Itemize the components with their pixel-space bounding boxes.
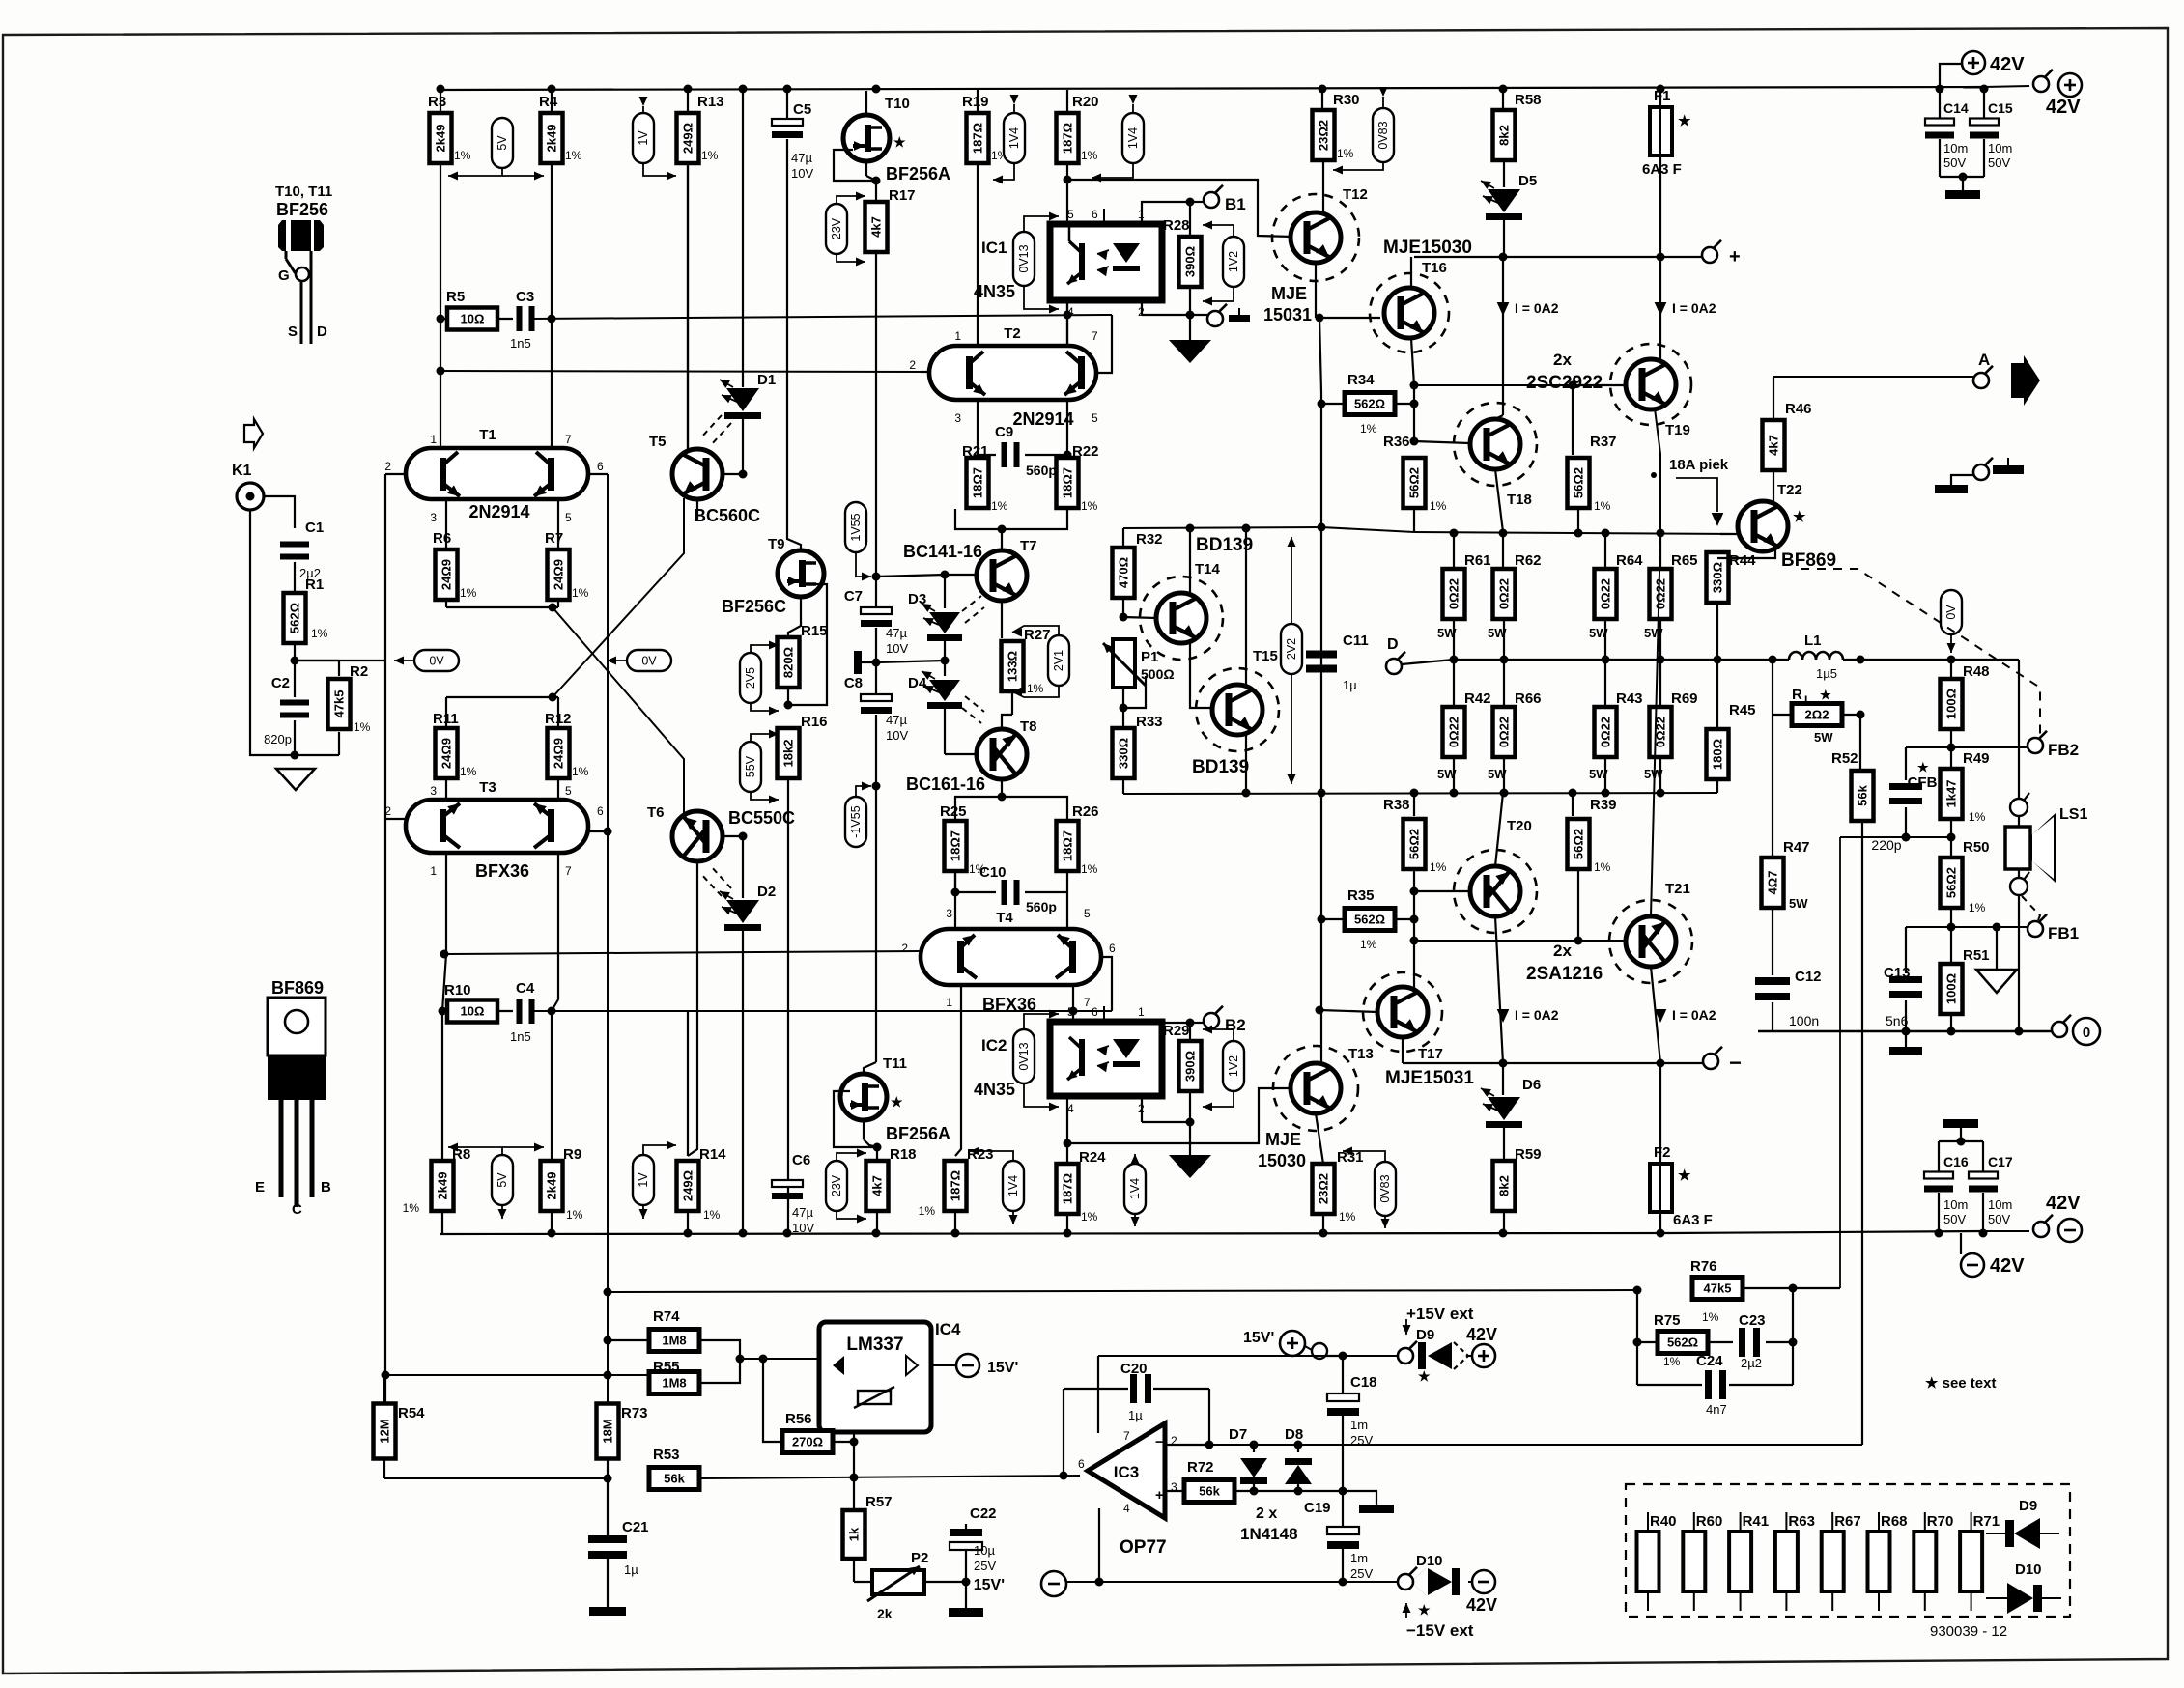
wire R21 top to T2 pin3 (977, 400, 979, 458)
svg-text:1%: 1% (1337, 147, 1354, 160)
svg-text:D2: D2 (757, 884, 776, 900)
svg-text:15030: 15030 (1258, 1151, 1306, 1170)
label 23V measure (826, 204, 847, 254)
wire pin3 via R72 (1165, 1490, 1185, 1492)
transistor T15 BD139 (1196, 668, 1279, 751)
svg-text:R18: R18 (890, 1146, 917, 1163)
svg-text:I = 0A2: I = 0A2 (1672, 1007, 1716, 1023)
svg-text:187Ω: 187Ω (1061, 1173, 1075, 1204)
label 0V83 measure R31 (1375, 1162, 1396, 1216)
svg-text:25V: 25V (1350, 1433, 1373, 1448)
svg-text:D5: D5 (1518, 173, 1537, 189)
svg-text:+: + (1155, 1487, 1164, 1504)
svg-text:C21: C21 (622, 1519, 649, 1535)
speaker LS1 (2005, 827, 2030, 869)
resistor R48 (1950, 660, 1952, 678)
svg-text:56k: 56k (1199, 1484, 1220, 1499)
svg-text:1: 1 (954, 329, 961, 343)
resistor R34 (1345, 393, 1395, 415)
svg-text:D8: D8 (1285, 1426, 1303, 1443)
wire T7 collector to R21/R22 (1001, 529, 1003, 550)
svg-text:R41: R41 (1743, 1513, 1770, 1530)
wire op pin7 up (1098, 1356, 1343, 1433)
svg-text:1%: 1% (565, 149, 582, 162)
wire T4 base long wire (446, 951, 921, 954)
transistor T18 2SC2922 (1454, 403, 1537, 486)
svg-text:0V: 0V (641, 655, 657, 668)
resistor R62 (1502, 533, 1504, 569)
transistor T1 2N2914 (406, 448, 588, 499)
svg-text:BF869: BF869 (1781, 550, 1836, 571)
svg-text:−: − (1729, 1051, 1742, 1075)
svg-text:R36: R36 (1383, 434, 1410, 450)
wire C16 C17 top join (1939, 1140, 1983, 1142)
svg-text:C20: C20 (1120, 1361, 1148, 1377)
svg-text:220p: 220p (1871, 837, 1901, 853)
resistor R73 (597, 1404, 619, 1459)
wire D3-D4 mid tap (876, 661, 945, 662)
wire T17 base from T13 (1319, 1010, 1377, 1012)
svg-text:D9: D9 (1416, 1327, 1434, 1343)
ground C14 C15 (1945, 190, 1980, 199)
svg-text:56k: 56k (664, 1472, 685, 1486)
resistor R20 (1066, 90, 1068, 113)
svg-text:R69: R69 (1671, 690, 1698, 707)
wire T8 emitter to R25/R26 (1001, 779, 1003, 797)
svg-text:2x: 2x (1553, 942, 1572, 960)
svg-text:1%: 1% (460, 586, 477, 600)
svg-text:C18: C18 (1350, 1374, 1377, 1391)
svg-text:R2: R2 (350, 663, 368, 680)
svg-text:270Ω: 270Ω (792, 1435, 823, 1449)
wire T18 base (1414, 441, 1469, 443)
svg-text:R40: R40 (1650, 1513, 1677, 1530)
svg-text:390Ω: 390Ω (1183, 246, 1198, 277)
svg-text:1%: 1% (566, 1208, 583, 1222)
resistor R24 (1066, 1143, 1068, 1166)
svg-text:P2: P2 (911, 1550, 928, 1566)
wire T3 pin1 down (445, 853, 447, 954)
svg-text:562Ω: 562Ω (1354, 397, 1385, 411)
svg-text:T10: T10 (885, 96, 910, 112)
svg-text:7: 7 (1092, 329, 1098, 343)
svg-text:1%: 1% (403, 1201, 420, 1215)
svg-text:1%: 1% (572, 765, 589, 778)
svg-text:1m: 1m (1350, 1551, 1368, 1565)
svg-text:R15: R15 (801, 623, 828, 639)
svg-text:D10: D10 (1416, 1553, 1443, 1569)
terminal B1 (1190, 201, 1204, 203)
wire T12 column down to R35 (1320, 404, 1322, 919)
capacitor C7 (861, 607, 892, 614)
svg-text:D9: D9 (2019, 1498, 2037, 1514)
svg-text:OP77: OP77 (1120, 1537, 1167, 1558)
capacitor C14 (1939, 87, 1941, 118)
svg-text:C1: C1 (305, 520, 324, 536)
svg-text:930039 - 12: 930039 - 12 (1930, 1623, 2007, 1640)
svg-text:IC3: IC3 (1114, 1463, 1139, 1481)
svg-text:10V: 10V (792, 1221, 814, 1235)
output arrow A (2011, 355, 2040, 406)
svg-text:10µ: 10µ (974, 1543, 995, 1558)
transistor T17 MJE15031 (1413, 941, 1415, 988)
svg-text:BC550C: BC550C (728, 808, 795, 828)
wire K1 to C1 (264, 496, 295, 528)
connector K1 (237, 483, 264, 510)
svg-text:5: 5 (565, 784, 572, 798)
svg-text:T15: T15 (1253, 648, 1278, 664)
resistor R61 (1453, 533, 1455, 569)
svg-text:0V: 0V (429, 655, 444, 668)
svg-text:1µ5: 1µ5 (1816, 666, 1837, 681)
svg-text:562Ω: 562Ω (1667, 1336, 1698, 1350)
svg-text:1%: 1% (354, 720, 371, 734)
svg-text:180Ω: 180Ω (1711, 739, 1725, 770)
svg-text:100n: 100n (1789, 1013, 1819, 1028)
label 23V measure bottom (826, 1161, 847, 1211)
wire T7 base (876, 575, 945, 577)
resistor R68 (1878, 1512, 1880, 1532)
wire C4 to IC2 pin5 node (532, 1010, 1112, 1012)
diode D1 LED (726, 388, 759, 411)
transistor T8 BC161-16 (977, 729, 1027, 779)
transistor T5 BC560C (687, 161, 689, 450)
svg-text:8k2: 8k2 (1497, 125, 1512, 146)
svg-text:1µ: 1µ (1343, 678, 1357, 692)
svg-text:D7: D7 (1229, 1426, 1247, 1443)
svg-text:10V: 10V (886, 641, 908, 656)
resistor R41 (1740, 1512, 1742, 1532)
terminal A (1973, 373, 1989, 388)
wire C3 to IC1 pin4 node (532, 315, 1112, 319)
transistor T7 BC141-16 (977, 550, 1027, 601)
svg-text:24Ω9: 24Ω9 (440, 559, 454, 590)
svg-text:2k49: 2k49 (434, 125, 448, 153)
svg-text:T12: T12 (1343, 186, 1368, 203)
wire diagonal cross to T6 (553, 607, 684, 815)
svg-text:7: 7 (565, 864, 572, 878)
wire 42V stub (1940, 64, 1961, 87)
svg-text:42V: 42V (1990, 54, 2025, 75)
svg-text:R17: R17 (889, 187, 916, 204)
svg-text:23V: 23V (830, 217, 843, 239)
svg-text:MJE: MJE (1265, 1130, 1301, 1149)
label 0V83 measure (1373, 108, 1394, 162)
svg-text:T16: T16 (1422, 260, 1447, 276)
svg-text:I = 0A2: I = 0A2 (1515, 300, 1559, 316)
wire T2 pin6 (1096, 315, 1112, 373)
wire T1 base column (385, 473, 406, 475)
svg-text:R39: R39 (1590, 797, 1617, 813)
wire collector + rail (1414, 256, 1702, 258)
resistor R43 (1604, 660, 1606, 707)
svg-text:1%: 1% (1663, 1355, 1681, 1368)
resistor R37 (1572, 385, 1574, 455)
svg-text:1%: 1% (1702, 1310, 1719, 1324)
transistor T12 MJE15031 (1322, 160, 1324, 213)
capacitor C23 (1708, 1341, 1733, 1343)
capacitor C8 (861, 694, 892, 701)
svg-text:1%: 1% (1430, 860, 1447, 874)
svg-text:T8: T8 (1020, 718, 1037, 735)
svg-text:T5: T5 (649, 434, 667, 450)
wire 220p node (1840, 836, 1951, 838)
svg-text:C5: C5 (793, 101, 811, 118)
svg-text:R54: R54 (398, 1405, 425, 1421)
svg-text:18Ω7: 18Ω7 (971, 467, 985, 498)
current arrow I=0A2 bottom right (1655, 1009, 1667, 1023)
capacitor C16 (1924, 1172, 1953, 1179)
resistor R57 (843, 1510, 865, 1559)
terminal aux with grounds (1973, 464, 1989, 480)
resistor R39 (1572, 793, 1574, 816)
svg-text:23Ω2: 23Ω2 (1317, 1173, 1331, 1204)
svg-text:C11: C11 (1343, 633, 1369, 649)
svg-text:R38: R38 (1383, 797, 1410, 813)
resistor R5 (440, 318, 449, 320)
svg-text:C4: C4 (516, 980, 535, 997)
wire R1 to 0V node (294, 643, 296, 661)
diode D8 (1297, 1445, 1299, 1452)
wire bottom negative bus (440, 1233, 1672, 1234)
label 1V4 measure R24 (1124, 1164, 1146, 1214)
svg-text:5V: 5V (496, 135, 509, 151)
svg-text:IC4: IC4 (935, 1320, 961, 1338)
svg-text:10m: 10m (1988, 141, 2012, 155)
svg-text:1: 1 (1138, 1005, 1145, 1019)
power +42V top (1962, 51, 1985, 74)
svg-text:0V83: 0V83 (1376, 121, 1390, 149)
capacitor C22 (965, 1524, 967, 1529)
svg-text:1%: 1% (1027, 682, 1044, 695)
svg-text:18A piek: 18A piek (1669, 457, 1729, 473)
wire T21 base wire (1413, 919, 1415, 941)
svg-text:187Ω: 187Ω (971, 123, 985, 154)
svg-text:R73: R73 (621, 1405, 648, 1421)
wire FB1 (1906, 926, 2028, 928)
svg-text:1V4: 1V4 (1128, 1178, 1142, 1199)
svg-text:25V: 25V (974, 1559, 996, 1573)
resistor R22 (1057, 458, 1079, 508)
svg-text:55V: 55V (744, 755, 757, 777)
transistor T6 BC550C (672, 811, 723, 861)
svg-text:15V': 15V' (1243, 1330, 1274, 1346)
svg-text:C17: C17 (1988, 1154, 2013, 1169)
svg-text:R: R (1792, 687, 1802, 703)
current arrow I=0A2 right (1659, 257, 1661, 360)
resistor R6 (445, 499, 447, 549)
wire L1 right node (1860, 659, 1951, 661)
svg-text:T3: T3 (479, 779, 496, 796)
resistor R30 (1321, 90, 1323, 111)
resistor R7 (557, 499, 559, 549)
transistor T10 BF256A jfet (865, 91, 867, 116)
label -1V55 measure (845, 797, 866, 847)
svg-text:5: 5 (1084, 907, 1091, 920)
resistor R44 (1707, 552, 1729, 603)
svg-text:R51: R51 (1963, 947, 1990, 964)
ground stub output (1905, 1031, 1907, 1047)
svg-text:1%: 1% (1360, 422, 1377, 436)
svg-text:C7: C7 (844, 588, 863, 605)
svg-text:2Ω2: 2Ω2 (1805, 708, 1829, 722)
svg-text:R7: R7 (545, 530, 563, 547)
transistor T13 MJE15030 (1273, 1046, 1358, 1131)
svg-text:R49: R49 (1963, 750, 1990, 767)
svg-text:4: 4 (1123, 1502, 1130, 1515)
svg-text:4Ω7: 4Ω7 (1766, 871, 1780, 895)
svg-text:T4: T4 (996, 910, 1013, 926)
svg-text:D3: D3 (908, 591, 926, 607)
svg-text:0Ω22: 0Ω22 (1654, 578, 1668, 609)
label OV13 measure (1013, 232, 1035, 286)
diode D5 LED (1502, 89, 1504, 111)
svg-text:C2: C2 (271, 675, 290, 691)
svg-text:C16: C16 (1943, 1154, 1969, 1169)
transistor T2 2N2914 (929, 346, 1096, 400)
svg-text:R75: R75 (1654, 1312, 1681, 1329)
svg-text:12M: 12M (378, 1419, 392, 1443)
optocoupler IC1 4N35 (1050, 224, 1162, 300)
ground IC1 (1189, 315, 1191, 340)
svg-text:R30: R30 (1333, 92, 1360, 108)
svg-text:1%: 1% (1594, 860, 1611, 874)
regulator IC4 LM337 (819, 1322, 931, 1432)
capacitor C13 (1905, 927, 1907, 973)
wire pin2 long wire right (1209, 1444, 1862, 1446)
wire 0V node (295, 660, 385, 661)
resistor R16 (778, 728, 800, 778)
svg-text:★ see text: ★ see text (1925, 1375, 1996, 1392)
resistor R10 (442, 1010, 449, 1012)
svg-text:47µ: 47µ (886, 713, 907, 727)
wire T20 base (1410, 887, 1419, 896)
resistor RL (1773, 714, 1794, 716)
svg-text:R16: R16 (801, 714, 828, 730)
transistor T22 BF869 (1738, 501, 1788, 551)
transistor T14 BD139 (1140, 577, 1223, 660)
svg-text:18Ω7: 18Ω7 (949, 830, 963, 861)
svg-text:47µ: 47µ (791, 151, 812, 165)
wire bottom output rail (1758, 1030, 2054, 1032)
svg-text:BF256C: BF256C (722, 597, 786, 616)
resistor R18 (876, 1147, 878, 1161)
svg-text:0V13: 0V13 (1017, 244, 1031, 272)
svg-text:BC161-16: BC161-16 (906, 774, 985, 794)
svg-text:3: 3 (946, 907, 952, 920)
svg-text:1V2: 1V2 (1227, 251, 1240, 272)
label 2V1 measure (1048, 635, 1069, 686)
svg-text:5: 5 (1092, 411, 1098, 425)
svg-text:C15: C15 (1988, 100, 2013, 116)
svg-text:T22: T22 (1777, 482, 1802, 498)
svg-text:R43: R43 (1616, 690, 1643, 707)
svg-text:FB2: FB2 (2048, 741, 2079, 759)
capacitor C10 (954, 871, 956, 892)
svg-text:D4: D4 (908, 675, 927, 691)
svg-text:R42: R42 (1464, 690, 1491, 707)
svg-text:C14: C14 (1943, 100, 1969, 116)
svg-text:R48: R48 (1963, 663, 1990, 680)
terminal gnd B1 (1207, 311, 1223, 326)
svg-text:2µ2: 2µ2 (1741, 1356, 1762, 1370)
svg-text:560p: 560p (1026, 899, 1057, 914)
svg-text:LS1: LS1 (2059, 806, 2087, 823)
svg-text:2V5: 2V5 (744, 667, 757, 689)
svg-text:MJE15031: MJE15031 (1385, 1068, 1474, 1088)
wire R25 bottom to T4 pin3 (954, 871, 956, 929)
svg-text:L1: L1 (1804, 633, 1822, 649)
svg-text:56Ω2: 56Ω2 (1944, 867, 1959, 898)
label 0V measure 2 (607, 660, 628, 661)
wire minus rail (1403, 1062, 1703, 1064)
wire LM337 adj down (853, 1432, 855, 1446)
svg-text:18M: 18M (601, 1419, 615, 1443)
capacitor C19 (1342, 1491, 1344, 1527)
label 1V4 between R19 R20 (1004, 113, 1025, 163)
svg-text:0Ω22: 0Ω22 (1599, 717, 1613, 747)
resistor R64 (1604, 533, 1606, 569)
capacitor C20 (1153, 1388, 1209, 1390)
svg-text:T7: T7 (1020, 538, 1037, 554)
svg-text:1: 1 (430, 864, 437, 878)
svg-text:T18: T18 (1507, 492, 1532, 508)
svg-text:1%: 1% (1969, 901, 1986, 914)
resistor R63 (1785, 1512, 1787, 1532)
resistor R54 (374, 1404, 396, 1459)
wire pin2 to feedback (1165, 1444, 1209, 1446)
resistor R67 (1831, 1512, 1833, 1532)
svg-text:T20: T20 (1507, 818, 1532, 834)
svg-text:BF256A: BF256A (886, 164, 950, 183)
svg-text:F2: F2 (1654, 1144, 1671, 1161)
transistor T3 BFX36 (406, 800, 588, 853)
resistor R36 (1413, 404, 1415, 441)
svg-text:FB1: FB1 (2048, 924, 2079, 942)
svg-text:R60: R60 (1696, 1513, 1723, 1530)
svg-text:C12: C12 (1795, 969, 1822, 985)
svg-text:R50: R50 (1963, 839, 1990, 856)
svg-text:1%: 1% (701, 149, 719, 162)
svg-text:5: 5 (1067, 208, 1074, 221)
wire T13 emitter to R31 (1316, 1113, 1323, 1164)
svg-text:T13: T13 (1348, 1046, 1374, 1062)
svg-text:2k49: 2k49 (545, 1172, 559, 1200)
svg-text:2N2914: 2N2914 (468, 502, 529, 521)
svg-text:R68: R68 (1881, 1513, 1908, 1530)
svg-text:BF256: BF256 (276, 200, 328, 219)
power -42V below (1960, 1233, 1962, 1254)
svg-text:BF869: BF869 (271, 978, 324, 998)
svg-text:T14: T14 (1195, 561, 1221, 577)
svg-text:P1: P1 (1141, 649, 1158, 665)
svg-text:R20: R20 (1072, 94, 1099, 110)
resistor R50 (1950, 837, 1952, 856)
svg-text:4k7: 4k7 (870, 1175, 885, 1196)
svg-text:★: ★ (1678, 1168, 1691, 1184)
wire R3 column (440, 90, 441, 448)
svg-text:T1: T1 (479, 427, 496, 443)
capacitor C17 (1969, 1172, 1998, 1179)
wire colA down to R54 (384, 819, 386, 1404)
ground C16 C17 (1943, 1119, 1978, 1128)
svg-text:R34: R34 (1347, 372, 1375, 388)
svg-text:R70: R70 (1927, 1513, 1954, 1530)
label 5V measure top (492, 118, 513, 168)
potentiometer P1 (1113, 639, 1135, 688)
svg-text:R74: R74 (653, 1308, 680, 1325)
label 1V55 measure (845, 502, 866, 552)
